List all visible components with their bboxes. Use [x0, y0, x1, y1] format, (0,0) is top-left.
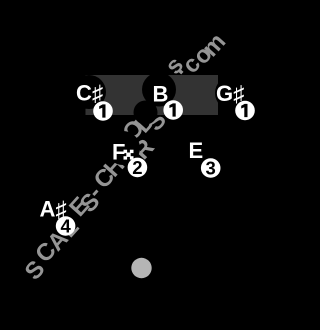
label B — [153, 81, 169, 106]
svg-text:3: 3 — [206, 157, 216, 178]
note B disc — [142, 73, 176, 107]
svg-text:C♯: C♯ — [76, 80, 103, 105]
note A# disc — [34, 190, 68, 224]
ghost note disc — [134, 101, 158, 125]
svg-text:E: E — [189, 138, 204, 163]
finger 1 on C# — [93, 101, 113, 121]
label G# — [216, 81, 244, 106]
watermark SCALES-CHORDS.com — [20, 28, 232, 285]
finger 4 on A# — [56, 215, 76, 236]
svg-text:B: B — [153, 81, 169, 106]
svg-text:G♯: G♯ — [216, 81, 244, 106]
note E disc — [179, 132, 213, 166]
finger 1 on G# — [235, 101, 255, 121]
fret bar — [86, 75, 219, 115]
label C# — [76, 80, 103, 105]
label A# — [40, 197, 67, 222]
svg-text:4: 4 — [60, 215, 71, 236]
note G# disc — [215, 76, 249, 110]
label E — [189, 138, 204, 163]
svg-text:F: F — [112, 140, 125, 165]
note C# disc — [72, 75, 106, 109]
label F double-sharp — [112, 140, 134, 165]
note Fx disc — [106, 131, 140, 165]
finger 2 on Fx — [128, 157, 148, 178]
finger 3 on E — [201, 157, 221, 178]
open string marker — [131, 258, 151, 278]
svg-text:2: 2 — [132, 157, 142, 178]
finger 1 on B — [163, 100, 183, 120]
